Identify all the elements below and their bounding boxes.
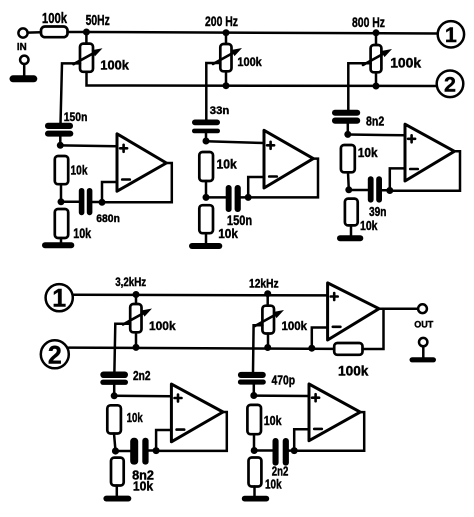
- ground (12kHz stage): [242, 496, 269, 502]
- node B1 junction dot: [58, 198, 65, 205]
- svg-text:10k: 10k: [360, 219, 378, 233]
- label 10k (50Hz upper): [71, 164, 88, 178]
- svg-text:10k: 10k: [133, 480, 153, 494]
- label 150n (200Hz): [227, 212, 252, 228]
- node B5 junction dot: [251, 447, 258, 454]
- label 100k (input resistor): [42, 10, 68, 27]
- wire rail 2 top: [87, 72, 438, 86]
- svg-text:3,2kHz: 3,2kHz: [115, 277, 146, 289]
- label 470p: [272, 374, 296, 388]
- node A2 junction dot: [203, 138, 210, 145]
- label 10k (800Hz upper): [358, 146, 378, 160]
- resistor 10k (50Hz upper): [55, 156, 68, 184]
- resistor 10k (800Hz lower): [345, 199, 358, 226]
- svg-text:1: 1: [445, 23, 457, 47]
- label 10k (3.2kHz upper): [127, 411, 143, 425]
- label 8n2 (800Hz): [366, 115, 384, 129]
- label 10k (50Hz lower): [73, 226, 91, 241]
- terminal 2 (bottom left): [41, 340, 69, 369]
- svg-text:2: 2: [444, 73, 456, 97]
- wire U1 output feedback: [102, 163, 172, 202]
- wire node C3f to op-amp U3 minus input: [390, 168, 405, 190]
- label 10k (800Hz lower): [360, 219, 378, 233]
- resistor 10k (800Hz upper): [341, 145, 355, 172]
- node B3 junction dot: [345, 186, 352, 193]
- ground (3.2kHz stage): [103, 496, 131, 502]
- node 50Hz junction dot: [83, 29, 90, 36]
- svg-text:10k: 10k: [358, 146, 378, 160]
- capacitor 150n (50Hz): [45, 123, 73, 137]
- wire 10k to node B2: [205, 181, 208, 197]
- label 10k (200Hz lower): [218, 226, 238, 241]
- label 10k (12kHz upper): [264, 414, 282, 428]
- resistor 10k (3.2kHz lower): [111, 458, 124, 486]
- ground (output): [410, 338, 437, 363]
- svg-text:10k: 10k: [127, 411, 143, 425]
- svg-text:1: 1: [52, 285, 66, 313]
- wire C8 to node C4f: [149, 449, 156, 452]
- svg-text:100k: 100k: [390, 55, 421, 71]
- svg-text:10k: 10k: [265, 478, 282, 492]
- wire U2 output feedback: [248, 159, 318, 198]
- resistor 100k (feedback): [334, 343, 362, 355]
- terminal 2 (top right): [437, 71, 464, 98]
- svg-text:OUT: OUT: [414, 319, 433, 330]
- resistor 10k (12kHz lower): [249, 458, 262, 487]
- resistor 10k (50Hz lower): [55, 209, 68, 238]
- ground (input): [10, 56, 38, 83]
- wire 10k lower to ground: [253, 487, 256, 497]
- wire wiper 12kHz to C9: [253, 325, 262, 372]
- node pot4 bottom junction dot: [133, 332, 140, 351]
- wire node B3 to C6: [349, 189, 368, 192]
- wire U3 output feedback: [390, 151, 460, 190]
- wire rail 1 top: [86, 32, 438, 34]
- svg-text:2n2: 2n2: [272, 465, 289, 479]
- node minus rail junction dot: [308, 345, 315, 352]
- capacitor 33n (200Hz): [192, 120, 220, 134]
- wire node B5 to C10: [254, 449, 272, 452]
- wire node C1f to op-amp U1 minus input: [102, 182, 117, 202]
- resistor 10k (12kHz upper): [247, 405, 261, 434]
- wire node C4f to op-amp U4 minus input: [156, 430, 171, 451]
- node pot4 top junction dot: [133, 291, 140, 298]
- terminal 1 (bottom left): [46, 284, 73, 313]
- wire C9 to node A5: [253, 385, 256, 396]
- wire node A4 to op-amp U4 plus input: [114, 395, 171, 398]
- node B2 junction dot: [203, 194, 210, 201]
- node B4 junction dot: [112, 447, 119, 454]
- label IN: [17, 41, 27, 53]
- wire U6 output to OUT: [379, 307, 418, 310]
- output terminal OUT: [418, 304, 427, 313]
- node 800Hz junction dot: [373, 29, 380, 36]
- svg-text:39n: 39n: [369, 205, 387, 219]
- label 2n2 (3.2kHz): [133, 369, 151, 383]
- node C5f junction dot: [291, 447, 298, 454]
- wire node B1 to C2: [61, 201, 79, 204]
- capacitor 2n2 (3.2kHz): [100, 372, 128, 385]
- wire 10k lower to ground: [60, 238, 63, 243]
- wire wiper 200Hz to C3: [206, 63, 220, 120]
- op-amp U1: [117, 134, 166, 191]
- label 100k (pot 800Hz): [390, 55, 421, 71]
- potentiometer 100k (12kHz band): [255, 294, 284, 334]
- svg-text:100k: 100k: [237, 57, 262, 69]
- label 10k (3.2kHz lower): [133, 480, 153, 494]
- capacitor 680n (50Hz series): [79, 188, 93, 215]
- node A1 junction dot: [57, 142, 64, 149]
- label 2n2 (12kHz): [272, 465, 289, 479]
- wire C3 to node A2: [205, 131, 208, 141]
- label 100k (pot 3.2kHz): [149, 319, 176, 333]
- op-amp U5: [309, 384, 360, 441]
- svg-text:150n: 150n: [64, 110, 88, 124]
- wire node A5 to op-amp U5 plus input: [254, 394, 309, 397]
- wire node A3 to op-amp U3 plus input: [348, 133, 405, 136]
- wire rail 2 bottom: [69, 348, 334, 349]
- label 8n2 (3.2kHz): [132, 469, 154, 483]
- svg-text:50Hz: 50Hz: [86, 12, 110, 29]
- label 150n (50Hz): [64, 110, 88, 124]
- label 800 Hz: [352, 14, 385, 30]
- potentiometer 100k (3.2kHz band): [123, 295, 152, 333]
- label OUT: [414, 319, 433, 330]
- svg-text:10k: 10k: [71, 164, 88, 178]
- wire 10k lower to ground: [116, 486, 119, 497]
- svg-text:100k: 100k: [42, 10, 68, 27]
- label 100k (feedback): [338, 364, 369, 379]
- wire wiper 50Hz to C1: [61, 63, 81, 124]
- label 39n: [369, 205, 387, 219]
- wire C6 to node C3f: [382, 189, 390, 192]
- op-amp U4: [171, 384, 223, 442]
- input terminal IN: [18, 28, 27, 37]
- svg-text:33n: 33n: [210, 105, 230, 117]
- wire rail 2 to op-amp U6 minus input: [312, 328, 328, 349]
- wire feedback resistor to U6 output: [363, 309, 384, 349]
- resistor 10k (200Hz lower): [199, 205, 213, 233]
- wire node B4 to C8: [116, 450, 131, 453]
- wire wiper 800Hz to C5: [348, 63, 370, 109]
- svg-text:12kHz: 12kHz: [249, 279, 279, 291]
- node C4f junction dot: [153, 447, 160, 454]
- resistor 10k (200Hz upper): [199, 152, 213, 181]
- wire node C2f to op-amp U2 minus input: [248, 177, 264, 197]
- label 100k (pot 50Hz): [100, 57, 129, 72]
- wire rail 1 bottom: [73, 293, 328, 296]
- wire node B2 to C4: [206, 196, 226, 199]
- wire input to R1: [28, 31, 41, 34]
- potentiometer 100k (800Hz band): [363, 33, 392, 73]
- wire R1 to node 50Hz: [68, 31, 87, 34]
- svg-text:100k: 100k: [338, 364, 369, 379]
- potentiometer 100k (50Hz band): [74, 32, 103, 72]
- capacitor 2n2 (12kHz series): [273, 438, 289, 466]
- wire C5 to node A3: [347, 124, 350, 135]
- node 200Hz junction dot: [223, 29, 230, 36]
- svg-text:200 Hz: 200 Hz: [205, 13, 238, 29]
- wire node A2 to op-amp U2 plus input: [206, 141, 264, 143]
- wire node A1 to op-amp U1 plus input: [60, 144, 117, 147]
- node pot3 bottom junction dot: [373, 83, 380, 90]
- wire 10k to node B3: [347, 172, 350, 189]
- label 100k (pot 12kHz): [282, 319, 308, 333]
- wire pot2 bottom to rail 2: [225, 71, 228, 85]
- label 680n: [96, 213, 120, 225]
- wire 10k to node B1: [60, 184, 63, 202]
- resistor 100k (input series): [41, 27, 68, 38]
- potentiometer 100k (200Hz band): [213, 33, 242, 72]
- label 200 Hz: [205, 13, 238, 29]
- wire 10k to node B5: [253, 434, 256, 450]
- node C2f junction dot: [245, 194, 252, 201]
- node pot2 bottom junction dot: [223, 82, 230, 89]
- op-amp U3: [405, 124, 454, 181]
- node C1f junction dot: [99, 199, 106, 206]
- node A5 junction dot: [250, 392, 257, 399]
- wire 10k to node B4: [114, 434, 116, 451]
- wire U4 output feedback: [156, 412, 227, 451]
- wire wiper 3.2kHz to C7: [114, 324, 130, 372]
- label 100k (pot 200Hz): [237, 57, 262, 69]
- svg-text:8n2: 8n2: [366, 115, 384, 129]
- label 12kHz: [249, 279, 279, 291]
- node A3 junction dot: [344, 131, 351, 138]
- op-amp U6 (output): [328, 283, 379, 340]
- wire pot3 bottom to rail 2: [375, 72, 378, 86]
- svg-text:10k: 10k: [264, 414, 282, 428]
- label 10k (200Hz upper): [217, 158, 237, 172]
- wire C4 to node C2f: [241, 196, 248, 199]
- label 3,2kHz: [115, 277, 146, 289]
- wire C10 to node C5f: [289, 449, 294, 452]
- capacitor 150n (200Hz series): [226, 185, 241, 212]
- wire C7 to node A4: [113, 385, 116, 396]
- svg-text:10k: 10k: [217, 158, 237, 172]
- ground (50Hz stage): [42, 242, 74, 248]
- svg-text:10k: 10k: [73, 226, 91, 241]
- capacitor 470p (12kHz): [238, 372, 266, 385]
- wire C2 to node C1f: [92, 201, 102, 204]
- label 10k (12kHz lower): [265, 478, 282, 492]
- terminal 1 (top right): [438, 21, 464, 47]
- svg-text:800 Hz: 800 Hz: [352, 14, 385, 30]
- wire 10k lower to ground: [205, 233, 208, 243]
- wire node C5f to op-amp U5 minus input: [294, 429, 309, 450]
- svg-text:IN: IN: [17, 41, 27, 53]
- ground (200Hz stage): [189, 243, 222, 249]
- label 33n: [210, 105, 230, 117]
- svg-text:2: 2: [48, 342, 62, 370]
- node A4 junction dot: [111, 392, 118, 399]
- node pot5 bottom junction dot: [264, 334, 271, 352]
- svg-text:100k: 100k: [149, 319, 176, 333]
- node pot5 top junction dot: [264, 290, 271, 297]
- svg-text:100k: 100k: [282, 319, 308, 333]
- wire 10k lower to ground: [350, 225, 353, 236]
- label 50Hz: [86, 12, 110, 29]
- svg-text:2n2: 2n2: [133, 369, 151, 383]
- svg-text:680n: 680n: [96, 213, 120, 225]
- capacitor 39n (800Hz series): [368, 176, 382, 202]
- ground (800Hz stage): [337, 235, 363, 241]
- svg-text:470p: 470p: [272, 374, 296, 388]
- wire U5 output feedback: [294, 412, 364, 451]
- svg-text:100k: 100k: [100, 57, 129, 72]
- svg-text:10k: 10k: [218, 226, 238, 241]
- node C3f junction dot: [386, 187, 393, 194]
- resistor 10k (3.2kHz upper): [107, 405, 121, 433]
- capacitor 8n2 (800Hz): [332, 110, 360, 124]
- op-amp U2: [264, 130, 313, 188]
- wire C1 to node A1: [59, 137, 62, 146]
- capacitor 8n2 (3.2kHz series): [130, 438, 148, 465]
